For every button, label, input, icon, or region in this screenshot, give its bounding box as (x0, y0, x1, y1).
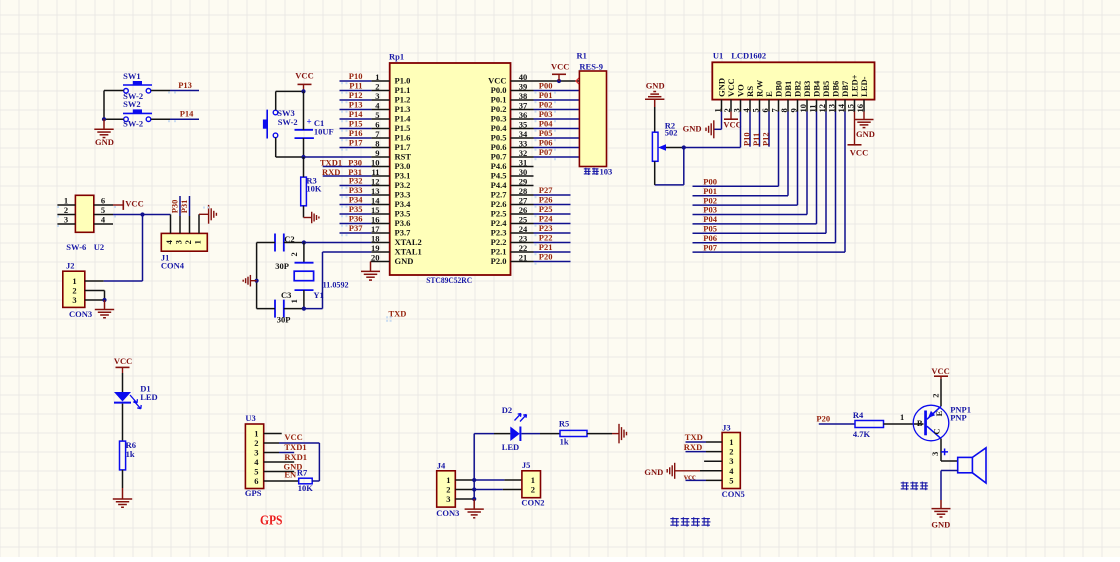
J4 pin2 wire (455, 489, 474, 491)
junction switches-GND (102, 117, 106, 121)
wire row1 to J5 (474, 479, 504, 481)
svg-text:6: 6 (375, 120, 379, 130)
wire crystal bottom (303, 290, 305, 309)
wire J2.2-J2.3 (104, 291, 106, 301)
svg-text:34: 34 (519, 129, 528, 139)
svg-text:28: 28 (519, 186, 528, 196)
svg-text:P0.7: P0.7 (491, 152, 508, 162)
power VCC at U2 pin6 (113, 204, 123, 206)
power VCC LED+ (854, 112, 856, 145)
label plus (941, 449, 948, 456)
wire J4 to D2 (473, 434, 475, 480)
connector J3 CON5 body (722, 433, 740, 489)
LED D1 (114, 392, 131, 402)
wire reset bottom left (276, 156, 304, 158)
svg-text:LCD1602: LCD1602 (731, 51, 766, 61)
svg-text:XTAL2: XTAL2 (395, 237, 422, 247)
svg-text:3: 3 (930, 452, 940, 456)
crystal Y1 11.0592 (295, 262, 314, 264)
U2 pin 6 (94, 204, 113, 206)
svg-text:DB7: DB7 (840, 80, 850, 97)
wire SW2 left (104, 118, 124, 120)
svg-text:P3.4: P3.4 (395, 199, 412, 209)
svg-text:XTAL1: XTAL1 (395, 247, 422, 257)
svg-text:P25: P25 (539, 204, 553, 214)
svg-text:22: 22 (519, 243, 528, 253)
wire LCD pin1 gnd (721, 112, 723, 130)
svg-text:P04: P04 (539, 119, 553, 129)
svg-text:P30: P30 (348, 157, 362, 167)
svg-text:5: 5 (254, 467, 258, 477)
wire R6 to gnd (122, 470, 124, 488)
connector J5 CON2 body (522, 471, 541, 498)
power VCC LCD pin2 (730, 112, 732, 120)
wire SW1 to P13 (151, 90, 170, 92)
junction node U2/J1/J2 (140, 212, 144, 216)
wire GND to R2 (654, 107, 656, 132)
svg-text:CON2: CON2 (521, 497, 544, 507)
svg-text:2: 2 (375, 82, 379, 92)
wire P30 net (323, 166, 372, 168)
wire SW3 top (275, 91, 277, 110)
svg-text:RS: RS (745, 86, 755, 97)
svg-text:DB5: DB5 (821, 81, 831, 97)
U2 pin 1 (57, 204, 75, 206)
wire RW P11 (759, 112, 761, 147)
J3 pin2 RXD (706, 451, 722, 453)
wire P31 net (323, 175, 372, 177)
svg-text:P2.1: P2.1 (491, 247, 507, 257)
wire D2 to R5 (522, 433, 541, 435)
svg-text:P2.6: P2.6 (491, 199, 507, 209)
svg-text:GND: GND (95, 137, 114, 147)
svg-text:P02: P02 (539, 100, 553, 110)
wire crystal top (303, 243, 305, 263)
svg-text:36: 36 (519, 110, 528, 120)
junction RST (301, 155, 305, 159)
label SMS module chinese (670, 517, 679, 526)
svg-text:24: 24 (519, 224, 528, 234)
svg-text:VCC: VCC (723, 119, 741, 129)
svg-text:1: 1 (729, 437, 733, 447)
svg-text:P1.4: P1.4 (395, 114, 412, 124)
svg-text:P33: P33 (349, 185, 363, 195)
svg-text:P0.1: P0.1 (491, 95, 507, 105)
connector J1 CON4 body (161, 233, 207, 251)
svg-text:P13: P13 (178, 80, 192, 90)
wire XTAL1 bottom (304, 308, 323, 310)
ground GND PNP (940, 500, 942, 509)
wire R7 to TXD1 loop (312, 480, 319, 482)
svg-text:VCC: VCC (488, 76, 506, 86)
svg-text:TXD1: TXD1 (320, 157, 342, 167)
svg-text:2: 2 (289, 252, 299, 256)
svg-text:VCC: VCC (850, 148, 868, 158)
svg-text:12: 12 (817, 104, 827, 113)
svg-text:P1.5: P1.5 (395, 123, 411, 133)
svg-text:DB0: DB0 (774, 81, 784, 97)
svg-text:SW2: SW2 (123, 99, 140, 109)
svg-text:P0.3: P0.3 (491, 114, 507, 124)
J3 pin4 gnd wire (700, 470, 722, 472)
svg-text:P10: P10 (349, 71, 363, 81)
svg-text:P1.3: P1.3 (395, 104, 411, 114)
label buzzer chinese (901, 482, 909, 491)
U2 pin 4 (94, 223, 113, 225)
svg-text:11: 11 (371, 167, 379, 177)
ground GND switches (103, 119, 105, 129)
svg-text:P0.4: P0.4 (491, 123, 508, 133)
svg-text:P37: P37 (349, 223, 363, 233)
svg-text:12: 12 (371, 177, 380, 187)
svg-text:P3.7: P3.7 (395, 228, 412, 238)
svg-text:VO: VO (736, 84, 746, 97)
ground GND J2 (104, 300, 106, 310)
svg-text:3: 3 (729, 456, 733, 466)
svg-text:1k: 1k (126, 449, 135, 459)
svg-text:DB3: DB3 (802, 81, 812, 97)
svg-text:2: 2 (72, 286, 76, 296)
svg-text:GND: GND (856, 129, 875, 139)
svg-text:30P: 30P (275, 261, 289, 271)
ground bar J3 (674, 463, 676, 479)
svg-text:GND: GND (646, 81, 665, 91)
svg-text:2: 2 (183, 240, 193, 244)
svg-text:P20: P20 (816, 414, 830, 424)
svg-text:9: 9 (375, 148, 379, 158)
resistor R3 10K (301, 177, 307, 206)
svg-text:C3: C3 (281, 290, 291, 300)
wire C3 loop (257, 308, 275, 310)
ground bar R5 (618, 424, 620, 444)
svg-text:P26: P26 (539, 195, 553, 205)
svg-text:502: 502 (665, 128, 678, 138)
wire XTAL1 vertical (322, 252, 324, 309)
svg-text:31: 31 (519, 158, 528, 168)
svg-text:J5: J5 (522, 460, 531, 470)
svg-text:1k: 1k (560, 436, 569, 446)
svg-text:TXD1: TXD1 (284, 442, 306, 452)
svg-text:P2.2: P2.2 (491, 237, 507, 247)
svg-text:vcc: vcc (684, 472, 696, 482)
svg-text:B: B (917, 418, 923, 428)
wires P32-P37 with net labels (340, 185, 372, 187)
svg-text:P0.0: P0.0 (491, 85, 507, 95)
svg-text:14: 14 (371, 196, 380, 206)
U2 pin 5 (94, 214, 113, 216)
svg-text:P0.2: P0.2 (491, 104, 507, 114)
svg-text:R5: R5 (559, 418, 569, 428)
svg-text:VCC: VCC (114, 356, 132, 366)
svg-text:37: 37 (519, 101, 528, 111)
svg-text:39: 39 (519, 82, 528, 92)
svg-text:P36: P36 (349, 214, 363, 224)
wire D1 to R6 (122, 404, 124, 442)
ground bar crystal (250, 280, 256, 282)
wire U2.5 to junction (113, 214, 143, 216)
svg-text:38: 38 (519, 91, 528, 101)
svg-text:D2: D2 (502, 405, 512, 415)
svg-text:5: 5 (729, 475, 733, 485)
svg-text:E: E (764, 91, 774, 97)
junction wiper (682, 145, 686, 149)
svg-text:P14: P14 (180, 108, 194, 118)
junction J4 pin2 (472, 487, 476, 491)
svg-text:P12: P12 (761, 132, 771, 146)
svg-text:10K: 10K (306, 184, 322, 194)
svg-text:P11: P11 (349, 81, 362, 91)
svg-text:GPS: GPS (260, 514, 283, 529)
svg-text:VCC: VCC (551, 61, 569, 71)
wires P27-P20 net stubs (534, 194, 571, 196)
wire C1 bottom (303, 138, 305, 157)
svg-text:5: 5 (375, 110, 379, 120)
svg-text:16: 16 (855, 104, 865, 113)
svg-text:10: 10 (371, 158, 380, 168)
svg-text:5: 5 (101, 205, 105, 215)
svg-text:P1.6: P1.6 (395, 133, 411, 143)
svg-text:P11: P11 (751, 133, 761, 146)
svg-text:P4.6: P4.6 (491, 161, 507, 171)
svg-text:10UF: 10UF (314, 126, 334, 136)
svg-text:19: 19 (371, 243, 380, 253)
wire junction down to J2.1 (142, 215, 144, 282)
wire RST to chip (304, 156, 372, 158)
svg-text:U3: U3 (245, 413, 255, 423)
svg-text:P31: P31 (179, 200, 189, 214)
no-ERC marker diamond (576, 78, 583, 85)
J2 pin 1 wire (85, 280, 104, 282)
junction J2 ground (102, 298, 106, 302)
U2 pin 3 (57, 223, 75, 225)
svg-text:J3: J3 (722, 423, 731, 433)
wire pot bottom (654, 161, 656, 185)
junction XTAL1 (302, 307, 306, 311)
svg-text:P05: P05 (539, 128, 553, 138)
svg-text:21: 21 (519, 253, 528, 263)
svg-text:VCC: VCC (125, 199, 143, 209)
U3 pin6 wire (264, 480, 299, 482)
svg-text:P3.2: P3.2 (395, 180, 411, 190)
svg-text:PNP: PNP (950, 413, 967, 423)
svg-text:RXD: RXD (684, 442, 702, 452)
wire row2 to J5 (474, 489, 503, 491)
wire switches common (103, 91, 105, 120)
wire VCC pin40 (534, 80, 580, 82)
svg-text:26: 26 (519, 205, 528, 215)
connector J4 CON3 body (437, 471, 456, 507)
MCU U-Rp1 body (390, 63, 511, 275)
svg-text:P2.3: P2.3 (491, 228, 507, 238)
wire P20 to R4 (819, 423, 855, 425)
U3 pin2 TXD1 (264, 442, 279, 444)
svg-text:P2.4: P2.4 (491, 218, 508, 228)
svg-text:P15: P15 (349, 119, 363, 129)
svg-text:P3.0: P3.0 (395, 161, 411, 171)
wire to speaker top (941, 460, 958, 462)
svg-text:VCC: VCC (284, 432, 302, 442)
wires P00-P07 to R1 (534, 90, 580, 92)
svg-text:R4: R4 (853, 410, 864, 420)
svg-text:11.0592: 11.0592 (323, 280, 349, 290)
wire VCC to D1 (122, 373, 124, 392)
svg-text:1: 1 (64, 196, 68, 206)
U2 pin 2 (57, 214, 75, 216)
J2 pin 2 wire (85, 290, 105, 292)
wire reset top (276, 90, 304, 92)
svg-text:103: 103 (600, 167, 613, 177)
svg-text:P0.6: P0.6 (491, 142, 507, 152)
svg-text:P2.5: P2.5 (491, 209, 507, 219)
svg-text:P00: P00 (539, 81, 553, 91)
svg-text:DB1: DB1 (783, 81, 793, 97)
svg-text:32: 32 (519, 148, 528, 158)
svg-text:STC89C52RC: STC89C52RC (426, 276, 472, 285)
svg-text:6: 6 (101, 196, 105, 206)
svg-text:2: 2 (64, 205, 68, 215)
svg-text:DB4: DB4 (812, 80, 822, 97)
svg-text:2: 2 (531, 485, 535, 495)
svg-text:VCC: VCC (295, 71, 313, 81)
svg-text:GND: GND (683, 124, 702, 134)
svg-text:P34: P34 (349, 195, 363, 205)
J3 pin1 TXD (706, 441, 722, 443)
ground bar LCD pin1 (713, 120, 715, 138)
svg-text:33: 33 (519, 139, 528, 149)
capacitor C3 30P (274, 300, 276, 318)
svg-text:11: 11 (807, 104, 817, 112)
svg-text:27: 27 (519, 196, 528, 206)
svg-text:13: 13 (826, 104, 836, 113)
resistor network R1 RES-9 body (579, 71, 606, 167)
U3 pin4 GND (264, 461, 295, 463)
junction pin40 VCC (557, 79, 561, 83)
svg-text:1: 1 (446, 475, 450, 485)
svg-text:R1: R1 (577, 51, 587, 61)
connector U2 SW-6 body (75, 195, 93, 232)
J2 pin 3 wire (85, 299, 105, 301)
svg-text:15: 15 (845, 104, 855, 113)
svg-text:10K: 10K (298, 483, 314, 493)
resistor R7 10K (299, 478, 313, 484)
svg-text:VCC: VCC (931, 366, 949, 376)
svg-text:10: 10 (798, 104, 808, 113)
connector U3 GPS body (245, 424, 263, 489)
wires DB0-DB7 to P00-P07 bus (778, 112, 780, 187)
wire collector down (940, 439, 942, 461)
J1 pin 1 stem (198, 214, 200, 233)
svg-text:P35: P35 (349, 204, 363, 214)
svg-text:3: 3 (375, 91, 379, 101)
svg-text:P30: P30 (170, 200, 180, 214)
svg-text:P2.7: P2.7 (491, 190, 508, 200)
svg-text:3: 3 (64, 215, 68, 225)
junction J4 pin1 (472, 478, 476, 482)
svg-text:P07: P07 (703, 242, 717, 252)
svg-text:P03: P03 (539, 109, 553, 119)
svg-text:P12: P12 (349, 90, 363, 100)
svg-text:40: 40 (519, 72, 528, 82)
svg-text:P23: P23 (539, 223, 553, 233)
svg-text:GPS: GPS (245, 488, 262, 498)
transistor PNP1 (913, 405, 949, 441)
MCU left pins 1-20 (371, 80, 389, 82)
J1 pin 2 stem (189, 216, 191, 233)
svg-text:U1: U1 (713, 51, 723, 61)
svg-text:R/W: R/W (755, 79, 765, 97)
wire P30 at J1.3 (179, 196, 181, 216)
J1 pin 4 stem (170, 215, 172, 234)
speaker symbol (958, 457, 973, 472)
svg-text:23: 23 (519, 234, 528, 244)
svg-text:CON5: CON5 (722, 489, 745, 499)
svg-text:P22: P22 (539, 233, 553, 243)
wire junction to J1.4 (143, 214, 171, 216)
svg-text:20: 20 (371, 253, 380, 263)
ground bar R3 (304, 217, 312, 219)
LCD U1 LCD1602 body (712, 62, 874, 99)
svg-text:3: 3 (72, 295, 76, 305)
svg-text:P4.5: P4.5 (491, 171, 507, 181)
ground at MCU pin20 (371, 261, 372, 263)
wire R5 to gnd (587, 433, 612, 435)
svg-text:DB6: DB6 (831, 81, 841, 97)
svg-text:17: 17 (371, 224, 380, 234)
wire R3 top (303, 157, 305, 177)
svg-text:P2.0: P2.0 (491, 256, 507, 266)
svg-text:2: 2 (446, 485, 450, 495)
wire SW3 bottom (275, 138, 277, 157)
wire SW1 left (104, 90, 124, 92)
svg-text:SW1: SW1 (123, 71, 140, 81)
svg-text:P24: P24 (539, 214, 553, 224)
svg-text:LED: LED (502, 442, 519, 452)
svg-text:1: 1 (72, 276, 76, 286)
svg-text:RST: RST (395, 152, 412, 162)
svg-text:EN: EN (284, 469, 297, 479)
switch SW3 pushbutton (273, 110, 278, 115)
svg-text:13: 13 (371, 186, 380, 196)
svg-text:30P: 30P (277, 315, 291, 325)
svg-text:P14: P14 (349, 109, 363, 119)
svg-text:P32: P32 (349, 176, 363, 186)
svg-text:6: 6 (254, 476, 258, 486)
svg-text:P21: P21 (539, 242, 553, 252)
ground GND J4 (473, 499, 475, 509)
svg-text:15: 15 (371, 205, 380, 215)
svg-text:CON3: CON3 (69, 309, 92, 319)
wire R4 to base (884, 423, 924, 425)
J4 pin1 wire (455, 479, 474, 481)
svg-text:P13: P13 (349, 100, 363, 110)
svg-text:P3.5: P3.5 (395, 209, 411, 219)
wire wiper (666, 147, 684, 149)
wire SW2 to P14 (151, 118, 170, 120)
svg-text:SW-6: SW-6 (66, 242, 86, 252)
wire pot feedback (683, 148, 685, 185)
svg-text:2: 2 (729, 447, 733, 457)
resistor R5 1k (560, 430, 587, 436)
svg-text:P06: P06 (539, 138, 553, 148)
svg-text:U2: U2 (94, 242, 104, 252)
svg-text:4.7K: 4.7K (853, 429, 871, 439)
wire R3 bottom (303, 206, 305, 218)
svg-text:P07: P07 (539, 147, 553, 157)
svg-text:P4.4: P4.4 (491, 180, 508, 190)
svg-text:2: 2 (254, 438, 258, 448)
svg-text:8: 8 (375, 139, 379, 149)
svg-text:P27: P27 (539, 185, 553, 195)
